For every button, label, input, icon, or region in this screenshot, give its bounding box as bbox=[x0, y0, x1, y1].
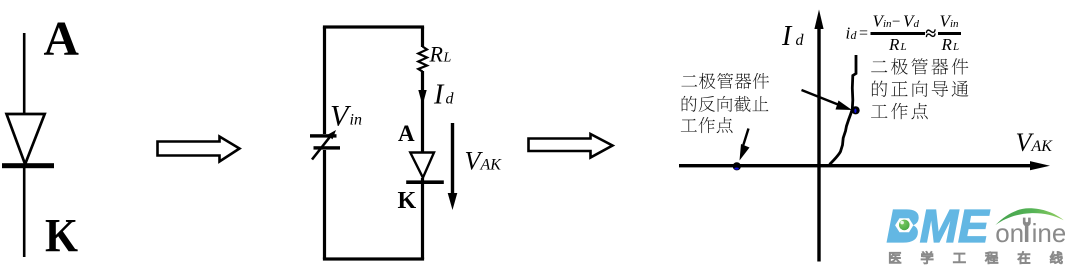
svg-text:d: d bbox=[796, 32, 805, 49]
label VAK bbox=[465, 147, 503, 176]
wire right upper bbox=[421, 27, 424, 47]
annotation arrow to reverse point bbox=[740, 129, 750, 161]
logo hexagon nut with green ball (inside B) bbox=[891, 213, 913, 240]
node K (cathode label) bbox=[45, 210, 78, 263]
svg-text:I: I bbox=[781, 21, 793, 52]
label Id (axis) bbox=[781, 21, 805, 52]
wire top bbox=[323, 25, 424, 28]
label VAK (axis) bbox=[1016, 128, 1054, 157]
operating point reverse (dot on axis) bbox=[733, 162, 741, 170]
svg-text:in: in bbox=[883, 18, 892, 30]
svg-text:A: A bbox=[398, 121, 415, 146]
svg-text:K: K bbox=[398, 188, 417, 214]
svg-text:AK: AK bbox=[480, 157, 503, 174]
block arrow 2 bbox=[529, 134, 613, 158]
label Vin bbox=[330, 100, 362, 133]
wire left (lower) bbox=[323, 150, 326, 259]
svg-text:L: L bbox=[900, 41, 907, 53]
svg-text:R: R bbox=[888, 35, 900, 54]
label reverse operating point 二极管器件的反向截止工作点 bbox=[681, 73, 769, 133]
label RL bbox=[429, 42, 452, 67]
wire left (upper) bbox=[323, 27, 326, 134]
svg-text:d: d bbox=[914, 18, 920, 30]
logo text 医学工程在线 bbox=[890, 252, 1062, 264]
svg-text:≈: ≈ bbox=[925, 23, 936, 45]
svg-text:A: A bbox=[44, 11, 80, 66]
svg-text:I: I bbox=[433, 80, 445, 111]
svg-text:L: L bbox=[443, 51, 452, 66]
svg-text:L: L bbox=[952, 41, 959, 53]
svg-text:in: in bbox=[950, 18, 959, 30]
annotation arrow to forward point bbox=[802, 90, 853, 110]
axis VAK (horizontal) bbox=[679, 161, 1050, 170]
curve diode characteristic bbox=[830, 55, 857, 165]
source Vin (variable source symbol) bbox=[310, 130, 340, 160]
current arrow Id (arrowhead on wire) bbox=[418, 90, 426, 106]
logo text online (with wrench as l) bbox=[995, 218, 1065, 248]
wire bottom bbox=[323, 257, 424, 260]
wire right middle with current arrow bbox=[421, 71, 424, 152]
diode D2 (triangle) bbox=[410, 153, 434, 178]
diode D1 (triangle) bbox=[7, 114, 45, 164]
svg-text:K: K bbox=[45, 210, 78, 263]
diode D2 cathode bar bbox=[406, 180, 444, 184]
resistor RL (zigzag) bbox=[418, 47, 427, 72]
svg-text:in: in bbox=[350, 112, 362, 129]
svg-text:d: d bbox=[446, 91, 455, 108]
svg-text:−: − bbox=[892, 14, 900, 30]
operating point forward (dot on curve) bbox=[852, 106, 860, 114]
node A (anode label) bbox=[44, 11, 80, 66]
svg-text:R: R bbox=[941, 35, 953, 54]
svg-text:R: R bbox=[429, 42, 444, 67]
node K (diode cathode) bbox=[398, 188, 417, 214]
label Id bbox=[433, 80, 455, 111]
wire cathode lead bbox=[23, 164, 26, 257]
svg-text:ine: ine bbox=[1032, 218, 1065, 248]
svg-text:on: on bbox=[995, 218, 1024, 248]
wire right lower bbox=[421, 178, 424, 259]
voltage arrow VAK bbox=[448, 123, 458, 210]
svg-text:=: = bbox=[859, 25, 868, 42]
label forward operating point 二极管器件的正向导通工作点 bbox=[871, 58, 968, 119]
logo green arc bbox=[996, 208, 1064, 225]
logo BME (blue letters) bbox=[887, 200, 991, 252]
diode D1 cathode bar bbox=[2, 163, 54, 168]
svg-text:d: d bbox=[851, 28, 858, 42]
svg-text:AK: AK bbox=[1031, 138, 1054, 155]
node A (diode anode) bbox=[398, 121, 415, 146]
wire anode lead bbox=[23, 33, 26, 115]
block arrow 1 bbox=[158, 137, 240, 162]
axis Id (vertical) bbox=[814, 10, 823, 262]
formula id=(Vin−Vd)/RL≈Vin/RL bbox=[846, 12, 962, 55]
